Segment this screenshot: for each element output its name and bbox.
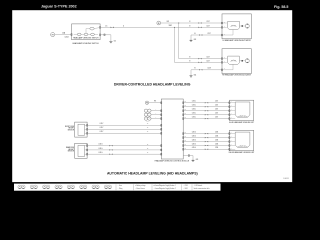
- svg-text:Fig. 58.5: Fig. 58.5: [274, 5, 288, 9]
- svg-text:AUTOMATIC HEADLAMP LEVELING (H: AUTOMATIC HEADLAMP LEVELING (HID HEADLAM…: [107, 172, 198, 176]
- svg-text:DRIVER-CONTROLLED HEADLAMP LEV: DRIVER-CONTROLLED HEADLAMP LEVELING: [114, 83, 191, 87]
- svg-text:Jaguar S-TYPE 2002: Jaguar S-TYPE 2002: [41, 5, 77, 9]
